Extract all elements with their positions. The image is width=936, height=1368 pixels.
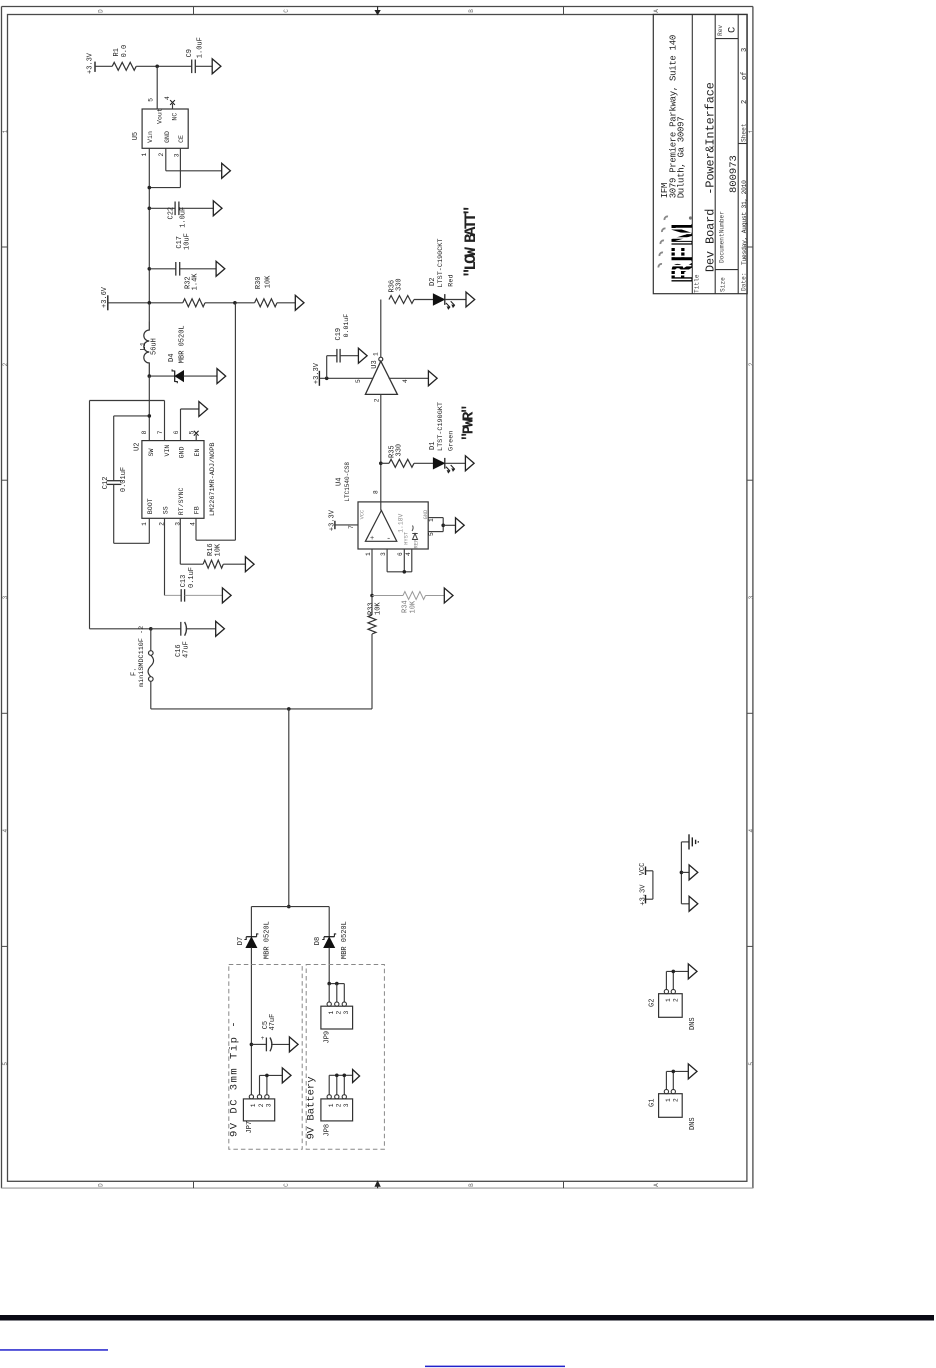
svg-text:RT/SYNC: RT/SYNC [178, 487, 185, 515]
svg-text:4: 4 [405, 552, 412, 556]
svg-text:D: D [98, 1183, 105, 1187]
svg-text:3: 3 [343, 1103, 350, 1107]
svg-text:47uF: 47uF [269, 1014, 277, 1031]
svg-text:1: 1 [428, 518, 435, 522]
svg-text:1: 1 [328, 1011, 335, 1015]
svg-text:LTST-C190GKT: LTST-C190GKT [437, 402, 445, 451]
svg-text:Tuesday, August 31, 2010: Tuesday, August 31, 2010 [741, 180, 748, 265]
svg-text:C: C [727, 27, 739, 33]
svg-text:10uF: 10uF [183, 233, 191, 250]
svg-text:10K: 10K [375, 602, 383, 615]
svg-text:"PWR": "PWR" [461, 406, 478, 441]
svg-text:Green: Green [448, 431, 456, 451]
svg-text:R34: R34 [402, 600, 410, 613]
svg-text:VIN: VIN [164, 445, 171, 457]
svg-text:Date:: Date: [740, 272, 747, 291]
svg-text:330: 330 [396, 278, 404, 291]
svg-text:0.1uF: 0.1uF [188, 567, 196, 588]
svg-text:7: 7 [348, 525, 355, 529]
svg-text:Dev Board -Power&Interface: Dev Board -Power&Interface [704, 82, 718, 272]
svg-text:LTC1540-CS8: LTC1540-CS8 [344, 462, 351, 502]
svg-text:5: 5 [355, 379, 362, 383]
svg-text:MBR 0520L: MBR 0520L [341, 921, 349, 959]
svg-text:1.0uF: 1.0uF [180, 207, 188, 228]
svg-text:C22: C22 [168, 207, 176, 220]
svg-text:JP8: JP8 [324, 1124, 332, 1137]
svg-text:1: 1 [328, 1103, 335, 1107]
svg-text:+: + [370, 535, 374, 543]
svg-text:SW: SW [148, 449, 155, 457]
svg-text:1: 1 [141, 153, 148, 157]
svg-text:3: 3 [748, 595, 755, 599]
svg-text:2: 2 [258, 1103, 265, 1107]
svg-text:A: A [653, 1183, 660, 1187]
svg-text:2: 2 [748, 362, 755, 366]
svg-text:Title: Title [694, 274, 701, 293]
svg-text:DNS: DNS [689, 1117, 697, 1130]
svg-text:1: 1 [141, 522, 148, 526]
svg-text:1.0uF: 1.0uF [197, 37, 205, 58]
svg-text:L1: L1 [140, 342, 148, 350]
svg-text:3: 3 [265, 1103, 272, 1107]
svg-text:"LOW BATT": "LOW BATT" [462, 207, 480, 277]
svg-text:U5: U5 [132, 132, 140, 140]
svg-text:G1: G1 [648, 1099, 656, 1107]
svg-text:4: 4 [164, 96, 171, 100]
svg-text:D2: D2 [429, 278, 437, 286]
svg-text:5: 5 [748, 1062, 755, 1066]
svg-text:1: 1 [665, 998, 672, 1002]
svg-text:2: 2 [673, 998, 680, 1002]
svg-text:1.4K: 1.4K [192, 273, 200, 291]
svg-text:2: 2 [336, 1011, 343, 1015]
svg-text:VCC: VCC [639, 863, 647, 876]
svg-text:C: C [283, 9, 290, 13]
svg-text:3: 3 [2, 595, 9, 599]
svg-text:MBR 0520L: MBR 0520L [263, 921, 271, 959]
svg-text:5: 5 [148, 98, 155, 102]
svg-text:1: 1 [373, 352, 380, 356]
svg-text:Vin: Vin [147, 131, 154, 143]
svg-text:JP7: JP7 [246, 1121, 254, 1134]
svg-text:B: B [468, 9, 475, 13]
svg-text:C: C [283, 1183, 290, 1187]
svg-text:2: 2 [373, 398, 380, 402]
svg-text:10K: 10K [409, 600, 417, 613]
svg-text:miniSMDC110F -2: miniSMDC110F -2 [138, 626, 146, 687]
svg-text:D4: D4 [168, 354, 176, 362]
svg-text:47uF: 47uF [183, 641, 191, 658]
svg-text:6: 6 [173, 430, 180, 434]
svg-text:C13: C13 [180, 575, 188, 588]
svg-text:D8: D8 [314, 937, 322, 945]
svg-text:1: 1 [748, 129, 755, 133]
svg-text:10K: 10K [215, 543, 223, 556]
svg-text:4: 4 [402, 379, 409, 383]
svg-text:9V DC 3mm Tip -: 9V DC 3mm Tip - [229, 1020, 241, 1137]
svg-text:1: 1 [2, 129, 9, 133]
svg-text:GND: GND [179, 446, 186, 458]
svg-text:2: 2 [673, 1098, 680, 1102]
svg-text:5: 5 [2, 1062, 9, 1066]
svg-text:9V Battery: 9V Battery [306, 1076, 318, 1139]
svg-text:D7: D7 [237, 937, 245, 945]
svg-text:HYST: HYST [403, 531, 409, 545]
svg-text:D1: D1 [429, 442, 437, 450]
svg-text:C16: C16 [175, 644, 183, 657]
svg-text:800973: 800973 [728, 155, 740, 193]
svg-text:4: 4 [748, 829, 755, 833]
svg-text:of: of [741, 72, 749, 80]
svg-text:-: - [386, 534, 391, 543]
svg-text:5: 5 [428, 532, 435, 536]
svg-text:NC: NC [172, 113, 179, 121]
svg-text:2: 2 [2, 362, 9, 366]
svg-text:10K: 10K [264, 275, 272, 288]
svg-text:+3.3V: +3.3V [329, 509, 337, 531]
svg-text:R30: R30 [255, 276, 263, 289]
svg-text:+: + [261, 1035, 265, 1042]
svg-text:Duluth, Ga 30097: Duluth, Ga 30097 [677, 117, 687, 199]
svg-text:JP9: JP9 [324, 1031, 332, 1044]
svg-text:7: 7 [157, 430, 164, 434]
svg-text:G2: G2 [648, 999, 656, 1007]
svg-text:DNS: DNS [689, 1017, 697, 1030]
svg-text:2: 2 [336, 1103, 343, 1107]
svg-text:+3.3V: +3.3V [87, 52, 95, 74]
svg-text:3: 3 [741, 48, 749, 52]
svg-text:REF: REF [414, 539, 420, 549]
svg-text:LM22671MR-ADJ/NOPB: LM22671MR-ADJ/NOPB [209, 443, 217, 516]
svg-text:MBR 0520L: MBR 0520L [178, 325, 186, 363]
svg-text:U3: U3 [371, 360, 379, 368]
svg-text:DocumentNumber: DocumentNumber [719, 211, 726, 263]
svg-text:LTST-C190CKT: LTST-C190CKT [437, 239, 445, 288]
svg-text:56uH: 56uH [151, 338, 159, 355]
svg-text:6: 6 [397, 552, 404, 556]
svg-text:GND: GND [164, 131, 171, 143]
svg-text:3: 3 [343, 1011, 350, 1015]
svg-text:C19: C19 [335, 328, 343, 341]
svg-text:3: 3 [380, 552, 387, 556]
svg-text:1: 1 [250, 1103, 257, 1107]
svg-text:VCC: VCC [359, 510, 365, 520]
svg-text:Sheet: Sheet [741, 123, 748, 142]
svg-text:5: 5 [189, 430, 196, 434]
svg-text:A: A [653, 9, 660, 13]
svg-text:8: 8 [372, 490, 379, 494]
svg-text:C9: C9 [186, 49, 194, 57]
svg-text:C12: C12 [102, 477, 110, 490]
svg-text:FB: FB [193, 506, 200, 514]
svg-text:3: 3 [174, 153, 181, 157]
svg-text:4: 4 [2, 829, 9, 833]
svg-text:SS: SS [162, 506, 169, 514]
svg-text:U2: U2 [134, 443, 142, 451]
svg-text:+3.3V: +3.3V [313, 362, 321, 384]
svg-text:U4: U4 [335, 478, 343, 486]
svg-text:2: 2 [741, 100, 749, 104]
svg-text:Vout: Vout [157, 108, 164, 124]
svg-text:Rev: Rev [717, 25, 724, 36]
svg-text:D: D [98, 9, 105, 13]
svg-text:0.0: 0.0 [121, 45, 129, 58]
svg-text:0.01uF: 0.01uF [343, 314, 350, 338]
svg-text:Size: Size [720, 277, 727, 292]
svg-text:1: 1 [665, 1098, 672, 1102]
svg-text:1.18V: 1.18V [398, 513, 405, 532]
svg-text:1: 1 [365, 552, 372, 556]
svg-text:EN: EN [194, 449, 201, 457]
svg-text:B: B [468, 1183, 475, 1187]
svg-text:R1: R1 [113, 48, 121, 56]
svg-text:2: 2 [158, 153, 165, 157]
svg-text:BOOT: BOOT [147, 498, 154, 514]
svg-text:+3.6V: +3.6V [101, 286, 109, 308]
svg-text:+3.3V: +3.3V [639, 884, 647, 906]
svg-text:Red: Red [448, 274, 456, 286]
svg-text:0.01uF: 0.01uF [120, 467, 128, 492]
svg-text:CE: CE [178, 135, 185, 143]
svg-text:8: 8 [141, 430, 148, 434]
svg-text:330: 330 [396, 444, 404, 457]
